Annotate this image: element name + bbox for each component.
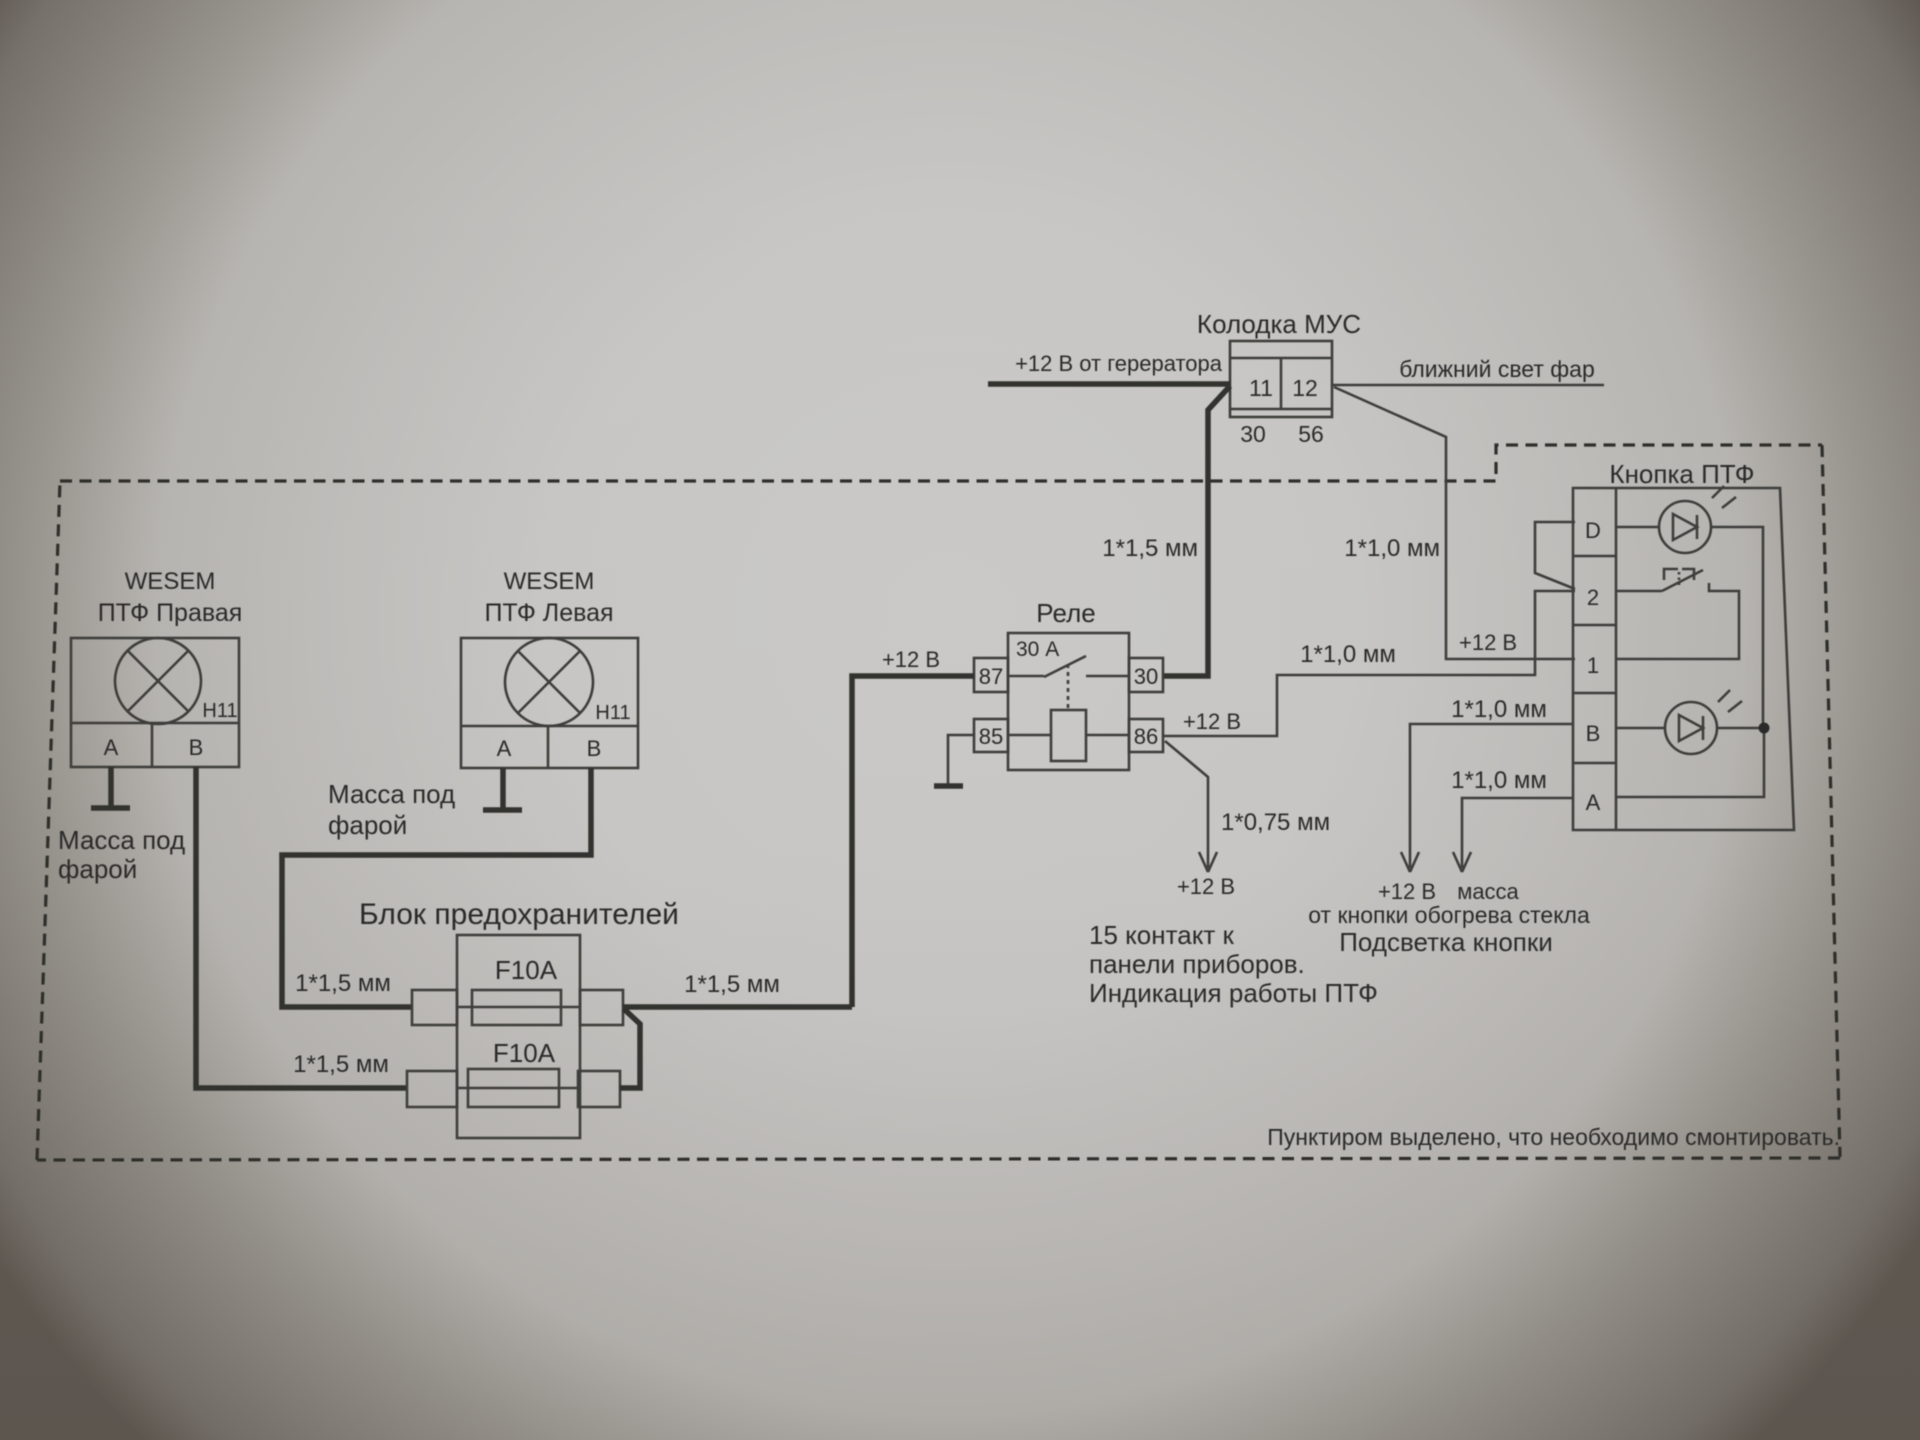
relay (Реле): [1008, 598, 1129, 770]
LED D2 illumination lamp in button: [1616, 690, 1742, 754]
wire MUS pin 11 down to relay pin 30 (1*1,5 mm): [1102, 386, 1230, 676]
relay pin 85: [974, 719, 1008, 752]
svg-text:11: 11: [1249, 375, 1273, 401]
relay pin 30: [1129, 658, 1163, 692]
lamp left bulb symbol H11: [505, 638, 631, 726]
svg-text:WESEM: WESEM: [125, 568, 216, 595]
svg-text:1*1,5 мм: 1*1,5 мм: [684, 971, 780, 998]
svg-text:фарой: фарой: [58, 854, 137, 884]
wire LED D2 to junction and pin A: [1616, 728, 1764, 797]
svg-text:Индикация работы ПТФ: Индикация работы ПТФ: [1089, 978, 1378, 1008]
lamp left pin A label: [497, 736, 512, 761]
svg-text:Колодка МУС: Колодка МУС: [1197, 309, 1361, 339]
junction node in button: [1759, 723, 1770, 734]
svg-text:30: 30: [1134, 664, 1158, 689]
button pin 1 label: [1587, 653, 1599, 678]
note: from heated glass button / button illumination: [1308, 902, 1590, 957]
svg-text:Кнопка ПТФ: Кнопка ПТФ: [1609, 459, 1754, 489]
fuse F2 F10A: [407, 1038, 620, 1107]
svg-text:Масса под: Масса под: [328, 779, 455, 809]
fuse box (Блок предохранителей): [359, 898, 679, 1138]
svg-text:D: D: [1585, 518, 1601, 543]
svg-text:H11: H11: [595, 702, 630, 724]
lamp right pin A label: [104, 735, 119, 760]
svg-text:фарой: фарой: [328, 810, 407, 840]
svg-text:Реле: Реле: [1036, 598, 1095, 628]
svg-text:F10A: F10A: [493, 1038, 556, 1068]
button pin B label: [1586, 721, 1601, 746]
wire MUS pin 12 to low beam (ближний свет фар): [1332, 356, 1604, 385]
svg-text:Подсветка кнопки: Подсветка кнопки: [1339, 927, 1553, 957]
wire junction fuse 1 to fuse 2 output: [620, 1009, 640, 1088]
button switch contact: [1616, 569, 1739, 659]
wire lamp right pin B down to fuse 2 (1*1,5 mm): [196, 767, 407, 1088]
wire button pin A to ground (1*1,0 mm): [1451, 767, 1573, 904]
svg-text:1*1,5 мм: 1*1,5 мм: [293, 1051, 389, 1078]
svg-text:12: 12: [1292, 375, 1318, 401]
svg-text:от кнопки обогрева стекла: от кнопки обогрева стекла: [1308, 902, 1590, 928]
ground under right lamp: [58, 808, 185, 884]
svg-text:A: A: [104, 735, 119, 760]
lamp right bulb symbol H11: [115, 638, 238, 724]
svg-text:ПТФ Левая: ПТФ Левая: [484, 599, 613, 627]
wire lamp left pin B down to fuse 1 (1*1,5 mm): [282, 768, 591, 1007]
note: 15 contact to instrument panel: [1089, 920, 1378, 1008]
svg-text:H11: H11: [202, 700, 237, 722]
svg-text:Масса под: Масса под: [58, 825, 185, 855]
svg-text:56: 56: [1298, 421, 1324, 447]
wire relay pin 86 to button pin 2 (+12V, 1*1,0 mm): [1163, 591, 1575, 736]
pin 30 label: [1240, 421, 1266, 447]
svg-text:+12 В от герератора: +12 В от герератора: [1015, 351, 1223, 376]
svg-text:1*1,5 мм: 1*1,5 мм: [295, 970, 391, 997]
dashed mounting boundary box: [37, 445, 1840, 1160]
svg-text:+12 В: +12 В: [1177, 874, 1235, 899]
svg-text:30 А: 30 А: [1016, 638, 1059, 661]
svg-text:B: B: [587, 736, 602, 761]
relay coil: [1008, 710, 1129, 761]
svg-text:15 контакт к: 15 контакт к: [1089, 920, 1235, 950]
svg-text:A: A: [497, 736, 512, 761]
svg-text:Блок предохранителей: Блок предохранителей: [359, 898, 679, 931]
lamp left pin B label: [587, 736, 602, 761]
svg-text:1*0,75 мм: 1*0,75 мм: [1221, 809, 1330, 836]
note: dashed box explanation: [1267, 1124, 1840, 1150]
connector MUS (Колодка МУС): [1197, 309, 1361, 417]
svg-text:B: B: [1586, 721, 1601, 746]
wire +12V from fuses to relay pin 87: [852, 647, 974, 1007]
wire relay pin 85 to ground: [948, 735, 974, 786]
fuse F1 F10A: [412, 955, 623, 1025]
svg-text:87: 87: [979, 664, 1003, 689]
pin 56 label: [1298, 421, 1324, 447]
relay pin 86: [1129, 719, 1163, 752]
svg-text:85: 85: [979, 724, 1003, 749]
svg-text:ближний свет фар: ближний свет фар: [1399, 356, 1595, 382]
wire +12V from generator to MUS pin 11: [988, 351, 1230, 384]
wire LED D1 to inner junction: [1711, 527, 1763, 728]
svg-text:30: 30: [1240, 421, 1266, 447]
fog lamp right (WESEM ПТФ Правая): [71, 568, 242, 767]
button pin A label: [1586, 790, 1601, 815]
svg-text:2: 2: [1587, 585, 1599, 610]
svg-text:ПТФ Правая: ПТФ Правая: [98, 599, 243, 627]
ground at relay: [934, 783, 963, 789]
svg-text:1: 1: [1587, 653, 1599, 678]
svg-text:B: B: [189, 735, 204, 760]
pin 11 label: [1249, 375, 1273, 401]
button pin 2 label: [1587, 585, 1599, 610]
svg-text:масса: масса: [1457, 879, 1519, 904]
ground under left lamp: [328, 779, 522, 840]
svg-text:86: 86: [1134, 724, 1158, 749]
svg-text:+12 В: +12 В: [1378, 879, 1436, 904]
wire MUS pin 12 down to button pin 1 (1*1,0 mm): [1334, 387, 1575, 659]
svg-text:+12 В: +12 В: [1183, 709, 1241, 734]
svg-text:1*1,0 мм: 1*1,0 мм: [1451, 696, 1547, 723]
svg-text:WESEM: WESEM: [504, 568, 595, 595]
svg-text:1*1,0 мм: 1*1,0 мм: [1451, 767, 1547, 794]
svg-text:1*1,0 мм: 1*1,0 мм: [1300, 641, 1396, 668]
wire fuse 1 output to relay pin 87 (1*1,5 mm): [623, 971, 852, 1007]
svg-text:панели приборов.: панели приборов.: [1089, 949, 1305, 979]
relay switch contact: [1008, 656, 1129, 710]
wire lamp left pin A to ground: [500, 768, 506, 810]
lamp right pin B label: [189, 735, 204, 760]
svg-text:+12 В: +12 В: [1459, 630, 1517, 655]
LED D1 indication lamp in button: [1616, 486, 1736, 553]
pin 12 label: [1292, 375, 1318, 401]
wire button pin B to heated glass button +12V (1*1,0 mm): [1378, 696, 1573, 904]
fog lamp left (WESEM ПТФ Левая): [461, 568, 638, 768]
wire lamp right pin A to ground: [108, 767, 114, 808]
button connector tab at pin 2: [1535, 522, 1575, 589]
svg-text:1*1,0 мм: 1*1,0 мм: [1344, 535, 1440, 562]
relay pin 87: [974, 658, 1008, 692]
fog light button (Кнопка ПТФ): [1573, 459, 1794, 830]
svg-text:1*1,5 мм: 1*1,5 мм: [1102, 535, 1198, 562]
svg-text:F10A: F10A: [495, 955, 558, 985]
svg-text:Пунктиром выделено, что необхо: Пунктиром выделено, что необходимо смонт…: [1267, 1124, 1840, 1150]
wire relay pin 86 to +12V instrument panel (1*0,75 mm): [1165, 741, 1330, 899]
svg-text:+12 В: +12 В: [882, 647, 940, 672]
button pin D label: [1585, 518, 1601, 543]
svg-text:A: A: [1586, 790, 1601, 815]
